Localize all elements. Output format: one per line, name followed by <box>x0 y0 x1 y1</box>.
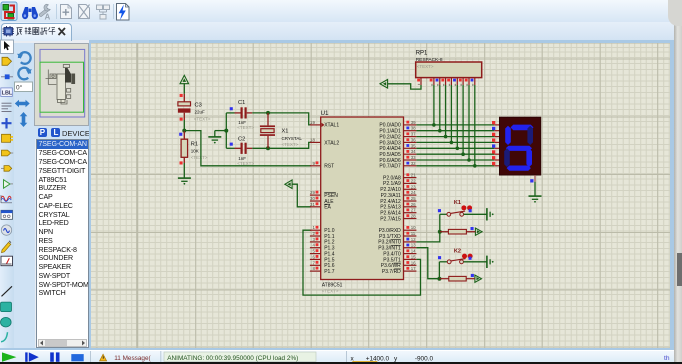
svg-text:2: 2 <box>312 231 315 236</box>
svg-text:+1400.0: +1400.0 <box>366 355 390 362</box>
svg-text:30: 30 <box>310 196 315 201</box>
svg-text:28: 28 <box>411 213 416 218</box>
svg-text:X1: X1 <box>282 128 289 134</box>
U1 right pin stubs and numbers <box>404 119 417 270</box>
svg-text:th: th <box>664 354 670 361</box>
svg-text:K1: K1 <box>454 200 461 206</box>
svg-text:8: 8 <box>312 266 315 271</box>
svg-text:RP1: RP1 <box>416 50 428 56</box>
wire C1 row to XTAL1 <box>252 112 311 124</box>
svg-text:<TEXT>: <TEXT> <box>194 116 211 121</box>
capacitor C3 <box>178 93 211 121</box>
svg-text:XTAL1: XTAL1 <box>324 122 339 128</box>
wire VCC to C3 <box>183 83 185 94</box>
left mode toolbar <box>0 43 14 348</box>
svg-text:16: 16 <box>411 260 416 265</box>
ground (below R1) <box>178 178 191 185</box>
svg-text:37: 37 <box>411 131 416 136</box>
wire R1 to ground <box>183 163 185 178</box>
op-amp U1 body (AT89C51) <box>321 109 404 292</box>
U1 left pin stubs and numbers <box>310 119 321 270</box>
pause button <box>50 352 54 361</box>
svg-text:34: 34 <box>411 149 416 154</box>
device list hscrollbar <box>38 339 88 347</box>
wire P3.2 to K1 <box>416 214 439 242</box>
resistor R1 <box>180 130 208 164</box>
svg-text:<TEXT>: <TEXT> <box>417 64 434 69</box>
warning icon <box>100 354 107 361</box>
switch K1 <box>438 200 487 216</box>
svg-text:<TEXT>: <TEXT> <box>191 154 208 159</box>
wire C1/C2 common vertical <box>225 112 227 147</box>
svg-text:10K: 10K <box>191 148 199 153</box>
segment e (unlit) <box>504 148 510 167</box>
right window edge <box>674 0 682 362</box>
RP1 pins 2-9 stubs, squares, numbers <box>430 77 475 86</box>
svg-text:y: y <box>394 355 398 362</box>
svg-text:39: 39 <box>411 119 416 124</box>
play button <box>2 352 16 361</box>
svg-text:38: 38 <box>411 125 416 130</box>
svg-text:U1: U1 <box>321 109 330 116</box>
svg-text:LBL: LBL <box>2 91 13 97</box>
node K1 junction <box>438 229 442 233</box>
ground (K2, rotated) <box>487 255 494 267</box>
svg-text:C3: C3 <box>195 102 202 108</box>
svg-text:P1.7: P1.7 <box>324 268 335 274</box>
power terminal VCC (left arrow, EA) <box>285 180 292 189</box>
svg-text:RESPACK-8: RESPACK-8 <box>416 56 443 62</box>
device panel header <box>34 126 89 139</box>
svg-text:29: 29 <box>310 190 315 195</box>
power terminal VCC (right arrow, K2 pullup) <box>475 275 482 282</box>
node crystal top <box>266 110 270 114</box>
svg-text:-900.0: -900.0 <box>415 355 434 362</box>
svg-text:ANIMATING: 00:00:39.950000 (CP: ANIMATING: 00:00:39.950000 (CPU load 2%) <box>167 355 298 362</box>
svg-text:7: 7 <box>312 260 315 265</box>
wire C3 to node <box>183 120 185 131</box>
svg-text:35: 35 <box>411 143 416 148</box>
RP1 pull-up verticals with junction nodes <box>432 85 477 168</box>
segment d (lit) <box>507 165 531 170</box>
svg-text:3: 3 <box>312 236 315 241</box>
wire VCC to RP1 pin 1 <box>388 83 421 88</box>
svg-text:R1: R1 <box>191 141 198 147</box>
canvas frame <box>89 40 674 43</box>
svg-text:CRYSTAL: CRYSTAL <box>282 135 303 140</box>
power terminal VCC (right arrow, K1 pullup) <box>475 228 482 235</box>
svg-text:10: 10 <box>411 225 416 230</box>
svg-text:11: 11 <box>411 231 416 236</box>
segment b (unlit) <box>527 125 533 144</box>
svg-text:C1: C1 <box>238 99 245 105</box>
status bar <box>0 350 674 364</box>
svg-text:26: 26 <box>411 201 416 206</box>
svg-text:24: 24 <box>411 190 416 195</box>
svg-text:1: 1 <box>312 225 315 230</box>
node caps/ground junction <box>215 128 229 132</box>
svg-text:19: 19 <box>310 119 315 124</box>
resistor K2 pull-up <box>439 273 475 280</box>
svg-text:P2.7/A15: P2.7/A15 <box>380 216 401 222</box>
svg-text:13: 13 <box>411 242 416 247</box>
top toolbar <box>0 0 682 23</box>
segment c (lit) <box>526 148 532 167</box>
U1 left pin names <box>322 122 340 274</box>
wires P0.0-P0.7 to display <box>416 124 499 165</box>
svg-text:22: 22 <box>411 178 416 183</box>
svg-text:33: 33 <box>411 155 416 160</box>
svg-text:XTAL2: XTAL2 <box>324 140 339 146</box>
ground (K1, rotated) <box>487 208 494 220</box>
step button <box>25 352 27 361</box>
overview panel <box>34 43 89 127</box>
schematic canvas grid <box>91 43 670 348</box>
overview mini schematic <box>46 64 76 104</box>
svg-text:A: A <box>45 13 51 22</box>
U1 right pin names <box>378 122 401 274</box>
svg-text:21: 21 <box>411 172 416 177</box>
capacitor C2 <box>226 136 254 166</box>
overview viewport rect <box>40 62 84 112</box>
switch K2 <box>438 248 487 263</box>
crystal X1 <box>260 112 302 147</box>
svg-text:K2: K2 <box>454 248 461 254</box>
wire VCC to EA <box>292 184 311 207</box>
wire C2 row to XTAL2 <box>252 142 311 148</box>
svg-text:14: 14 <box>411 248 416 253</box>
svg-text:6: 6 <box>312 254 315 259</box>
wire node to RST <box>184 130 311 165</box>
bottom window edge <box>0 362 682 364</box>
power terminal VCC (up arrow, C3) <box>180 75 189 83</box>
svg-text:18: 18 <box>310 137 315 142</box>
svg-text:9: 9 <box>312 160 315 165</box>
svg-text:36: 36 <box>411 137 416 142</box>
svg-text:RST: RST <box>324 163 334 169</box>
stop button <box>71 354 83 361</box>
capacitor C1 <box>226 99 254 129</box>
svg-text:P3.7/RD: P3.7/RD <box>382 268 401 274</box>
wire K2 junction up <box>438 261 440 278</box>
ground (below 7-seg display) <box>529 196 542 203</box>
svg-text:<TEXT>: <TEXT> <box>237 125 254 130</box>
node crystal bottom <box>266 146 270 150</box>
svg-text:11 Message(: 11 Message( <box>114 355 151 362</box>
svg-text:27: 27 <box>411 207 416 212</box>
segment g (lit) <box>506 145 532 150</box>
wire P1.0 to P3.5 loop <box>303 230 421 295</box>
svg-text:25: 25 <box>411 196 416 201</box>
svg-text:0°: 0° <box>16 83 23 91</box>
node K2 junction <box>437 276 441 280</box>
segment f (lit) <box>505 125 511 144</box>
svg-text:12: 12 <box>411 236 416 241</box>
svg-text:31: 31 <box>310 201 315 206</box>
svg-text:17: 17 <box>411 266 416 271</box>
RP1 pin 1 stub and square <box>417 77 421 84</box>
overview sheet outline <box>40 49 85 117</box>
power terminal VCC (left arrow, RP1 common) <box>380 79 388 88</box>
svg-text:P0.7/AD7: P0.7/AD7 <box>379 163 401 169</box>
svg-text:<TEXT>: <TEXT> <box>237 161 254 166</box>
node C3/R1/RST junction <box>179 128 186 135</box>
svg-text:C2: C2 <box>238 136 245 142</box>
rotate controls column <box>14 43 35 348</box>
svg-text:32: 32 <box>411 160 416 165</box>
wire P3.3 to K2 <box>416 247 439 278</box>
svg-text:4: 4 <box>312 242 315 247</box>
display common pin to ground <box>530 175 535 196</box>
svg-text:23: 23 <box>411 184 416 189</box>
device list <box>36 139 89 348</box>
7-segment display body <box>500 117 541 175</box>
svg-text:<TEXT>: <TEXT> <box>322 288 339 293</box>
svg-text:15: 15 <box>411 254 416 259</box>
resistor K1 pull-up <box>440 227 476 234</box>
svg-text:<TEXT>: <TEXT> <box>282 142 299 147</box>
svg-text:5: 5 <box>312 248 315 253</box>
segment a (lit) <box>511 124 534 130</box>
resistor pack RP1 (RESPACK-8) <box>416 50 482 77</box>
svg-text:22uF: 22uF <box>195 109 206 114</box>
display pin state squares <box>492 121 495 165</box>
svg-text:EA: EA <box>324 204 331 210</box>
ground (crystal caps) <box>208 130 221 143</box>
tab bar <box>0 22 682 40</box>
